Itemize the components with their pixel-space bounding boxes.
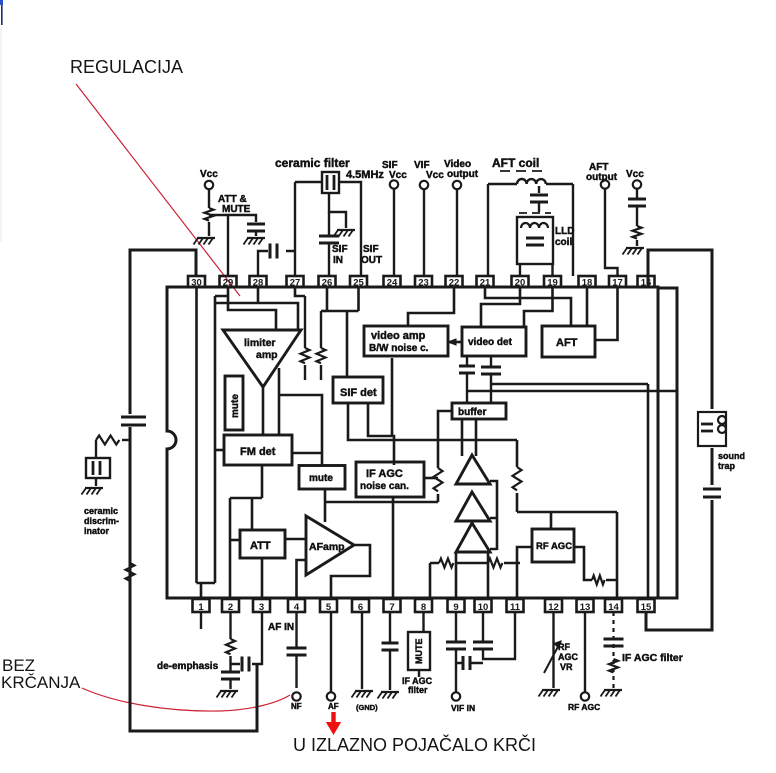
svg-text:Vcc: Vcc bbox=[426, 170, 444, 181]
svg-text:RF AGC: RF AGC bbox=[568, 702, 600, 712]
svg-text:NF: NF bbox=[291, 702, 302, 711]
svg-text:AFT: AFT bbox=[556, 337, 578, 349]
svg-text:ceramic: ceramic bbox=[84, 506, 118, 516]
svg-text:5: 5 bbox=[326, 602, 332, 613]
svg-text:8: 8 bbox=[421, 602, 426, 613]
svg-text:7: 7 bbox=[389, 602, 394, 613]
svg-text:11: 11 bbox=[510, 602, 521, 613]
svg-text:SIF: SIF bbox=[332, 244, 348, 255]
svg-text:4: 4 bbox=[294, 602, 300, 613]
svg-text:noise can.: noise can. bbox=[360, 481, 409, 492]
svg-text:video det: video det bbox=[468, 337, 513, 348]
svg-text:SIF det: SIF det bbox=[340, 387, 377, 399]
svg-text:ceramic filter: ceramic filter bbox=[275, 156, 350, 170]
svg-text:sound: sound bbox=[718, 451, 745, 461]
svg-text:trap: trap bbox=[718, 461, 736, 471]
svg-text:19: 19 bbox=[547, 278, 558, 289]
svg-text:AGC: AGC bbox=[558, 652, 579, 662]
svg-text:1: 1 bbox=[198, 602, 204, 613]
svg-text:video amp: video amp bbox=[371, 330, 426, 342]
svg-text:18: 18 bbox=[582, 278, 593, 289]
svg-text:25: 25 bbox=[353, 278, 364, 289]
svg-text:de-emphasis: de-emphasis bbox=[157, 661, 219, 672]
svg-text:coil: coil bbox=[555, 237, 572, 248]
svg-text:MUTE: MUTE bbox=[414, 639, 424, 665]
svg-text:Vcc: Vcc bbox=[626, 169, 644, 180]
svg-text:output: output bbox=[447, 169, 479, 180]
svg-text:filter: filter bbox=[408, 685, 428, 695]
svg-text:28: 28 bbox=[253, 278, 264, 289]
svg-text:amp: amp bbox=[256, 349, 278, 361]
svg-text:AFamp: AFamp bbox=[309, 541, 345, 553]
svg-text:RF AGC: RF AGC bbox=[536, 541, 572, 552]
svg-text:10: 10 bbox=[478, 602, 489, 613]
svg-text:24: 24 bbox=[387, 278, 398, 289]
svg-text:IN: IN bbox=[333, 255, 343, 266]
svg-text:AF: AF bbox=[328, 702, 339, 711]
svg-text:IF AGC filter: IF AGC filter bbox=[622, 652, 683, 664]
svg-text:12: 12 bbox=[548, 602, 559, 613]
svg-text:mute: mute bbox=[230, 394, 241, 418]
svg-text:ATT: ATT bbox=[250, 540, 271, 552]
svg-text:27: 27 bbox=[290, 278, 301, 289]
svg-text:buffer: buffer bbox=[458, 407, 486, 418]
svg-text:9: 9 bbox=[453, 602, 458, 613]
svg-text:inator: inator bbox=[84, 526, 109, 536]
svg-text:LLD: LLD bbox=[555, 226, 574, 237]
svg-text:VR: VR bbox=[560, 662, 573, 672]
svg-text:RF: RF bbox=[558, 642, 570, 652]
svg-text:23: 23 bbox=[418, 278, 429, 289]
svg-text:Vcc: Vcc bbox=[389, 170, 407, 181]
svg-text:AF IN: AF IN bbox=[268, 622, 294, 633]
svg-text:IF AGC: IF AGC bbox=[366, 468, 403, 480]
svg-text:VIF IN: VIF IN bbox=[451, 703, 475, 713]
svg-text:26: 26 bbox=[322, 278, 333, 289]
svg-text:29: 29 bbox=[223, 278, 234, 289]
svg-text:14: 14 bbox=[608, 602, 619, 613]
svg-text:AFT coil: AFT coil bbox=[492, 156, 539, 170]
svg-text:mute: mute bbox=[309, 473, 333, 484]
svg-text:21: 21 bbox=[480, 278, 491, 289]
svg-text:6: 6 bbox=[358, 602, 363, 613]
svg-text:15: 15 bbox=[641, 602, 652, 613]
svg-text:discrim-: discrim- bbox=[84, 516, 119, 526]
svg-text:2: 2 bbox=[228, 602, 233, 613]
svg-text:OUT: OUT bbox=[361, 255, 382, 266]
svg-text:MUTE: MUTE bbox=[222, 204, 251, 215]
svg-text:4.5MHz: 4.5MHz bbox=[346, 169, 384, 181]
svg-text:30: 30 bbox=[191, 278, 202, 289]
svg-text:(GND): (GND) bbox=[356, 703, 378, 712]
svg-text:3: 3 bbox=[259, 602, 264, 613]
svg-text:17: 17 bbox=[612, 278, 623, 289]
svg-text:limiter: limiter bbox=[244, 337, 276, 349]
svg-text:B/W noise c.: B/W noise c. bbox=[369, 343, 429, 354]
svg-text:Vcc: Vcc bbox=[200, 169, 218, 180]
svg-text:output: output bbox=[586, 172, 618, 183]
svg-text:13: 13 bbox=[580, 602, 591, 613]
svg-text:SIF: SIF bbox=[363, 244, 379, 255]
svg-text:20: 20 bbox=[515, 278, 526, 289]
svg-text:16: 16 bbox=[641, 278, 652, 289]
svg-text:FM det: FM det bbox=[240, 446, 276, 458]
svg-text:22: 22 bbox=[449, 278, 460, 289]
